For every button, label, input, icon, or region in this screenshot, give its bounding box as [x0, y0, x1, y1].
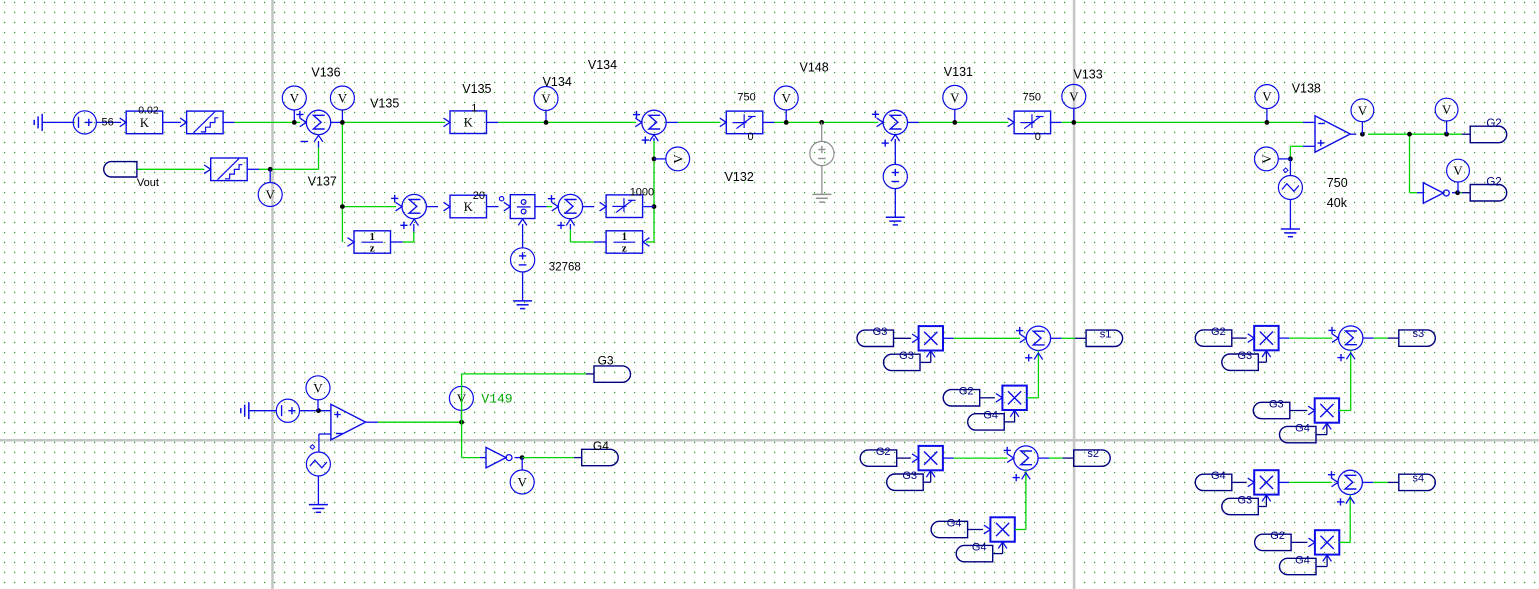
svg-text:G4: G4 — [1295, 422, 1310, 434]
svg-text:V: V — [541, 91, 551, 106]
svg-text:V: V — [782, 91, 792, 106]
svg-text:G3: G3 — [899, 350, 914, 362]
svg-text:V131: V131 — [944, 65, 973, 79]
svg-text:V132: V132 — [725, 170, 754, 184]
svg-text:V: V — [950, 90, 960, 105]
svg-text:V: V — [1069, 89, 1079, 104]
svg-text:G3: G3 — [1237, 350, 1252, 362]
svg-text:s3: s3 — [1412, 328, 1424, 340]
svg-text:0.02: 0.02 — [138, 105, 159, 117]
svg-text:G4: G4 — [972, 541, 987, 553]
svg-text:750: 750 — [1023, 91, 1041, 103]
svg-text:V: V — [1262, 89, 1272, 104]
svg-text:G3: G3 — [873, 326, 888, 338]
svg-text:V: V — [518, 475, 528, 490]
svg-text:V: V — [338, 91, 348, 106]
svg-text:V: V — [313, 380, 323, 395]
svg-text:V133: V133 — [1074, 67, 1103, 81]
svg-text:40k: 40k — [1327, 196, 1348, 210]
svg-text:V: V — [266, 187, 276, 202]
svg-text:V: V — [290, 91, 300, 106]
svg-text:Vout: Vout — [137, 177, 159, 189]
svg-text:G2: G2 — [876, 446, 891, 458]
svg-text:750: 750 — [1327, 176, 1348, 190]
svg-text:G2: G2 — [1270, 530, 1285, 542]
svg-text:V149: V149 — [481, 392, 512, 407]
svg-text:20: 20 — [473, 190, 485, 202]
svg-text:G3: G3 — [902, 470, 917, 482]
svg-text:G4: G4 — [947, 517, 962, 529]
svg-text:z: z — [622, 242, 627, 254]
svg-text:56: 56 — [102, 116, 114, 128]
svg-text:V134: V134 — [543, 75, 572, 89]
svg-text:G3: G3 — [598, 354, 614, 368]
svg-text:G4: G4 — [983, 410, 998, 422]
svg-text:z: z — [370, 242, 375, 254]
svg-text:G3: G3 — [1237, 494, 1252, 506]
svg-text:K: K — [464, 200, 473, 214]
svg-text:K: K — [140, 116, 149, 130]
svg-text:G4: G4 — [593, 439, 609, 453]
svg-text:V: V — [1358, 103, 1368, 118]
svg-text:V135: V135 — [370, 97, 399, 111]
svg-text:V: V — [1259, 154, 1274, 164]
svg-text:G4: G4 — [1295, 554, 1310, 566]
svg-text:G2: G2 — [1486, 176, 1501, 188]
svg-text:V138: V138 — [1292, 82, 1321, 96]
svg-text:G2: G2 — [1486, 118, 1501, 130]
svg-text:32768: 32768 — [549, 262, 581, 274]
svg-text:V: V — [1453, 163, 1463, 178]
svg-text:s4: s4 — [1412, 472, 1424, 484]
svg-text:0: 0 — [748, 131, 754, 143]
svg-text:V: V — [670, 154, 685, 164]
svg-text:G3: G3 — [1269, 398, 1284, 410]
svg-text:V134: V134 — [588, 58, 617, 72]
svg-text:V135: V135 — [462, 82, 491, 96]
svg-text:750: 750 — [737, 91, 755, 103]
svg-text:1000: 1000 — [630, 186, 654, 198]
svg-text:G4: G4 — [1211, 470, 1226, 482]
svg-text:V137: V137 — [308, 174, 337, 188]
svg-text:0: 0 — [1035, 131, 1041, 143]
svg-text:G2: G2 — [959, 386, 974, 398]
svg-text:s2: s2 — [1087, 448, 1099, 460]
svg-text:V136: V136 — [311, 65, 340, 79]
svg-text:K: K — [464, 116, 473, 130]
svg-text:1: 1 — [471, 103, 477, 115]
svg-text:V: V — [1442, 102, 1452, 117]
svg-text:G2: G2 — [1211, 326, 1226, 338]
svg-text:s1: s1 — [1100, 328, 1112, 340]
svg-text:V148: V148 — [800, 61, 829, 75]
